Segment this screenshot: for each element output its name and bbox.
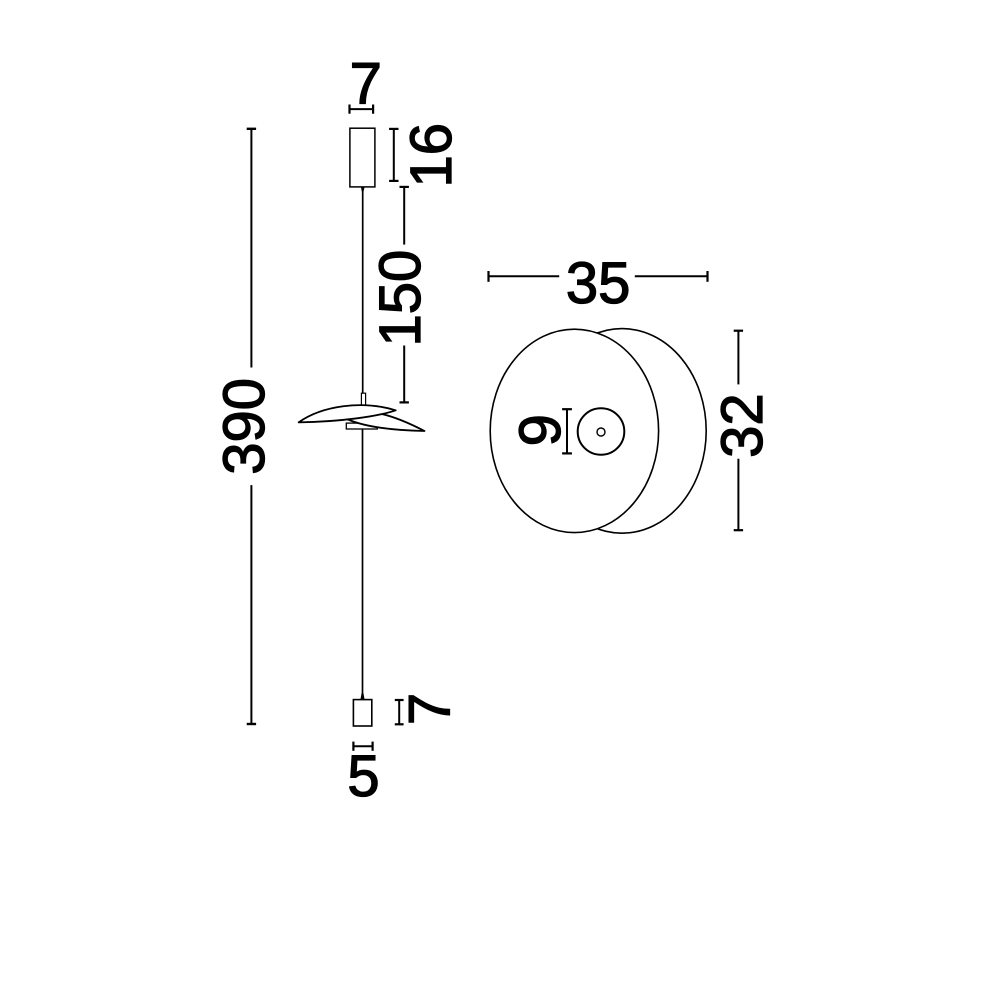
svg-text:390: 390 <box>212 378 277 475</box>
lower shade leaf <box>348 413 425 431</box>
dimension 150 line <box>400 187 409 403</box>
dimension 7 bottom line <box>395 700 404 724</box>
suspension cable upper <box>362 187 364 394</box>
suspension cable lower <box>362 429 364 696</box>
svg-text:7: 7 <box>398 693 463 725</box>
svg-text:5: 5 <box>347 744 379 809</box>
dimension 16 line <box>389 129 398 181</box>
svg-text:32: 32 <box>710 393 775 458</box>
cable stem above shade <box>361 393 365 406</box>
hub circle <box>578 408 625 455</box>
svg-text:7: 7 <box>350 52 382 117</box>
cable flare at bottom <box>360 693 364 700</box>
top view left disc <box>490 329 658 532</box>
dimension 32 line <box>734 331 743 531</box>
dimension 390 line <box>247 129 256 724</box>
hub center ring <box>597 428 605 436</box>
dimension 7 top line <box>350 105 374 114</box>
svg-text:16: 16 <box>399 123 464 188</box>
dimension 9 line <box>562 409 572 453</box>
svg-text:150: 150 <box>368 250 433 347</box>
dimension 5 line <box>353 742 372 751</box>
canopy cylinder <box>350 128 375 187</box>
driver box under shade <box>346 423 377 429</box>
svg-text:35: 35 <box>566 251 631 316</box>
cable flare at canopy <box>361 187 365 193</box>
upper shade leaf <box>299 405 396 422</box>
dimension 35 line <box>489 271 708 282</box>
svg-text:9: 9 <box>508 414 573 446</box>
bottom cylinder <box>353 700 371 726</box>
top view right disc <box>538 329 706 534</box>
